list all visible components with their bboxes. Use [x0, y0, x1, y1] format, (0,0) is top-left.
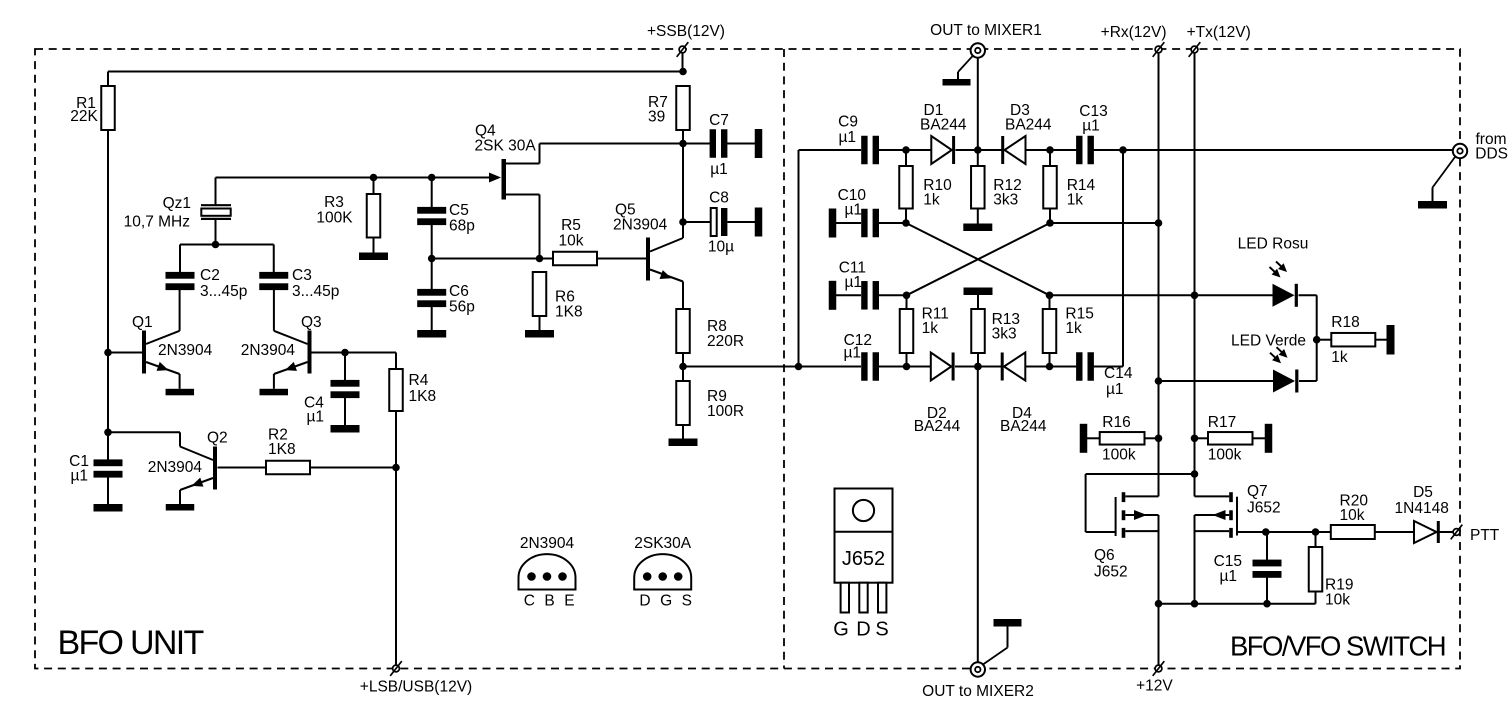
svg-text:1k: 1k: [1065, 320, 1082, 337]
svg-text:C9: C9: [838, 114, 858, 131]
svg-text:D5: D5: [1413, 484, 1433, 501]
svg-text:2N3904: 2N3904: [520, 535, 575, 552]
svg-text:R17: R17: [1208, 414, 1236, 431]
svg-text:2SK30A: 2SK30A: [634, 535, 692, 552]
svg-text:D: D: [856, 619, 870, 641]
svg-text:D G S: D G S: [639, 593, 694, 610]
svg-text:C8: C8: [709, 190, 729, 207]
svg-text:+Tx(12V): +Tx(12V): [1187, 24, 1251, 41]
svg-text:J652: J652: [1094, 564, 1128, 581]
svg-text:µ1: µ1: [710, 161, 728, 178]
svg-text:10k: 10k: [559, 233, 584, 250]
svg-text:1k: 1k: [923, 192, 940, 209]
svg-text:OUT to MIXER1: OUT to MIXER1: [930, 22, 1042, 39]
svg-text:C3: C3: [292, 267, 312, 284]
svg-text:R18: R18: [1331, 314, 1359, 331]
svg-text:BA244: BA244: [1000, 418, 1047, 435]
svg-text:µ1: µ1: [1082, 118, 1100, 135]
svg-text:10k: 10k: [1340, 507, 1365, 524]
svg-text:Q2: Q2: [207, 430, 228, 447]
svg-text:OUT to MIXER2: OUT to MIXER2: [922, 683, 1034, 700]
svg-text:C14: C14: [1104, 365, 1133, 382]
svg-text:220R: 220R: [707, 333, 744, 350]
svg-text:µ1: µ1: [307, 409, 325, 426]
svg-text:DDS: DDS: [1475, 146, 1508, 163]
svg-text:2N3904: 2N3904: [241, 342, 296, 359]
svg-text:10,7 MHz: 10,7 MHz: [124, 214, 190, 231]
svg-text:C6: C6: [449, 283, 469, 300]
svg-text:BA244: BA244: [920, 117, 967, 134]
svg-text:µ1: µ1: [843, 345, 861, 362]
svg-text:100k: 100k: [1208, 447, 1242, 464]
svg-text:BFO UNIT: BFO UNIT: [58, 624, 204, 662]
svg-text:Q6: Q6: [1094, 547, 1115, 564]
svg-text:+LSB/USB(12V): +LSB/USB(12V): [360, 679, 472, 696]
svg-text:R5: R5: [561, 217, 581, 234]
svg-text:Q3: Q3: [301, 314, 322, 331]
svg-text:BA244: BA244: [914, 418, 961, 435]
svg-text:R3: R3: [324, 194, 344, 211]
svg-text:+Rx(12V): +Rx(12V): [1101, 24, 1167, 41]
svg-text:3k3: 3k3: [992, 326, 1017, 343]
svg-text:+SSB(12V): +SSB(12V): [647, 23, 725, 40]
svg-text:PTT: PTT: [1470, 527, 1500, 544]
svg-text:µ1: µ1: [1106, 381, 1124, 398]
svg-text:R4: R4: [409, 372, 429, 389]
svg-text:LED Rosu: LED Rosu: [1238, 236, 1309, 253]
svg-text:µ1: µ1: [844, 202, 862, 219]
svg-text:J652: J652: [842, 548, 885, 570]
svg-text:68p: 68p: [449, 218, 475, 235]
svg-text:Qz1: Qz1: [163, 195, 191, 212]
svg-text:22K: 22K: [70, 108, 98, 125]
svg-text:S: S: [875, 619, 888, 641]
svg-text:1k: 1k: [1331, 349, 1348, 366]
svg-text:Q1: Q1: [132, 314, 153, 331]
svg-text:100R: 100R: [707, 403, 744, 420]
svg-text:C5: C5: [449, 202, 469, 219]
svg-text:C7: C7: [709, 112, 729, 129]
svg-text:2N3904: 2N3904: [158, 342, 213, 359]
svg-text:1K8: 1K8: [555, 304, 583, 321]
svg-text:R16: R16: [1102, 414, 1130, 431]
svg-text:C2: C2: [200, 267, 220, 284]
svg-text:2N3904: 2N3904: [613, 217, 668, 234]
svg-text:2N3904: 2N3904: [148, 459, 203, 476]
svg-text:G: G: [833, 619, 849, 641]
svg-text:BFO/VFO SWITCH: BFO/VFO SWITCH: [1230, 631, 1445, 662]
svg-text:39: 39: [648, 109, 665, 126]
svg-text:C B E: C B E: [524, 593, 577, 610]
svg-text:3...45p: 3...45p: [200, 283, 247, 300]
svg-text:100K: 100K: [316, 210, 353, 227]
svg-text:Q7: Q7: [1247, 483, 1268, 500]
svg-text:10µ: 10µ: [708, 239, 734, 256]
svg-text:100k: 100k: [1102, 447, 1136, 464]
svg-text:µ1: µ1: [1219, 568, 1237, 585]
svg-text:BA244: BA244: [1005, 117, 1052, 134]
svg-text:56p: 56p: [449, 299, 475, 316]
svg-text:+12V: +12V: [1136, 678, 1173, 695]
svg-text:1N4148: 1N4148: [1395, 500, 1449, 517]
svg-text:µ1: µ1: [70, 468, 88, 485]
svg-text:1K8: 1K8: [409, 388, 437, 405]
svg-text:1k: 1k: [1067, 192, 1084, 209]
svg-text:10k: 10k: [1325, 592, 1350, 609]
svg-text:J652: J652: [1247, 500, 1281, 517]
svg-text:3...45p: 3...45p: [292, 283, 339, 300]
svg-text:2SK 30A: 2SK 30A: [475, 138, 537, 155]
svg-text:µ1: µ1: [838, 129, 856, 146]
svg-text:LED Verde: LED Verde: [1231, 333, 1306, 350]
svg-text:µ1: µ1: [844, 274, 862, 291]
svg-text:1k: 1k: [922, 320, 939, 337]
svg-text:1K8: 1K8: [268, 441, 296, 458]
svg-text:3k3: 3k3: [993, 192, 1018, 209]
